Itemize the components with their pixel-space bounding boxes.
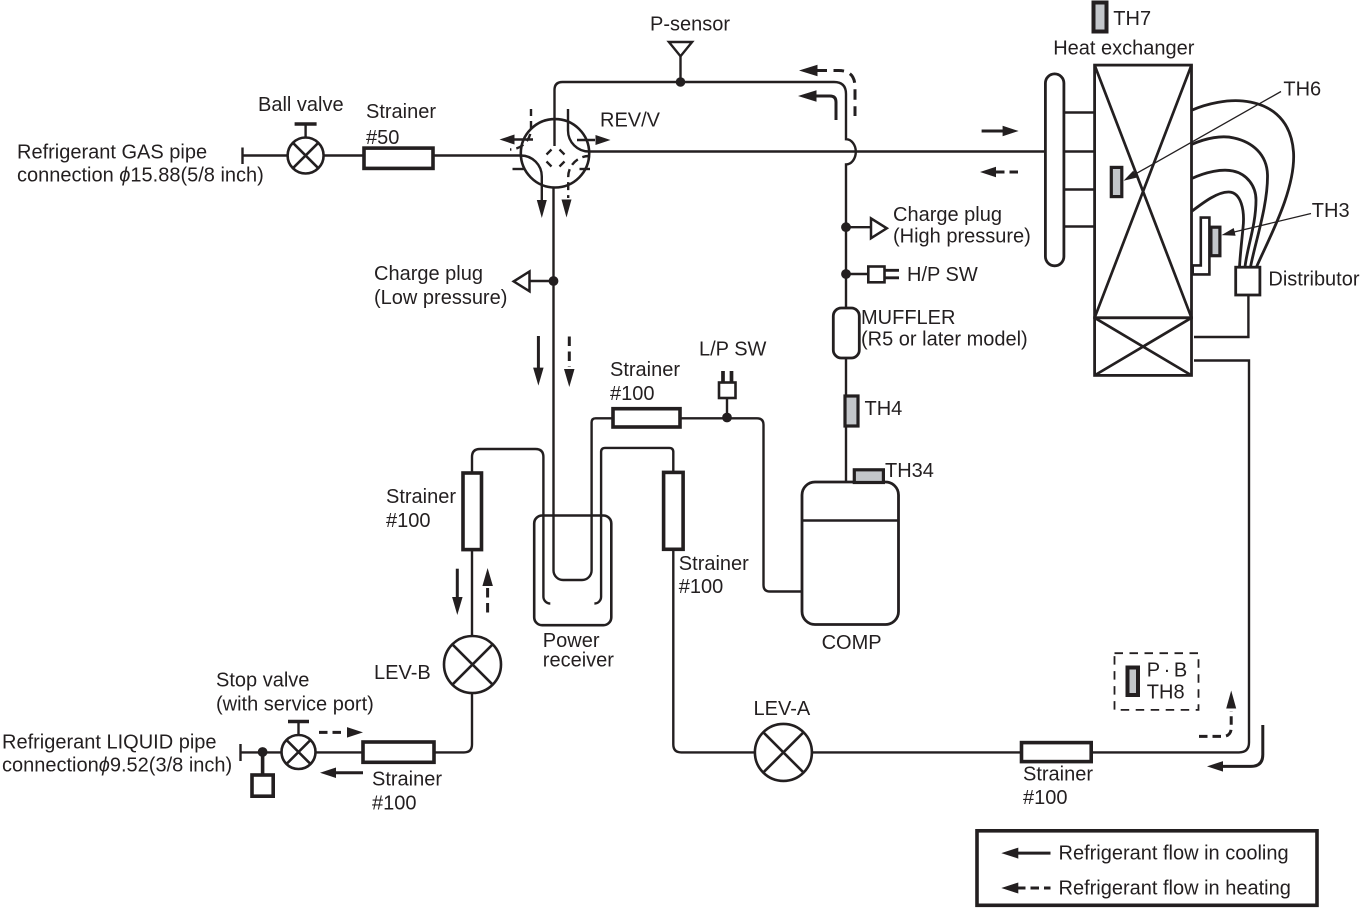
svg-text:TH8: TH8 bbox=[1147, 682, 1185, 704]
muffler bbox=[833, 308, 859, 358]
heat exchanger header stubs bbox=[1064, 113, 1096, 227]
svg-text:Strainer: Strainer bbox=[366, 101, 436, 123]
thermistor TH3 bbox=[1211, 227, 1220, 256]
svg-text:Refrigerant GAS pipe: Refrigerant GAS pipe bbox=[17, 142, 207, 164]
svg-text:TH4: TH4 bbox=[865, 398, 903, 420]
wire: GAS pipe end tick bbox=[241, 148, 243, 165]
strainer #100 horizontal (suction) bbox=[613, 409, 680, 427]
wire: right strainer - LEV-A - bottom strainer - riser to heat exchanger outlet bbox=[673, 361, 1249, 753]
REV/V bottom-right port tick bbox=[580, 168, 591, 170]
svg-text:Ball valve: Ball valve bbox=[258, 94, 344, 116]
cooling flow elbow arrow at discharge loop bbox=[816, 96, 836, 120]
wire: LIQUID pipe - stop valve - strainer - LEV-B - strainer - receiver left dip tube bbox=[241, 449, 551, 752]
svg-text:#100: #100 bbox=[372, 793, 417, 815]
svg-text:#50: #50 bbox=[366, 127, 399, 149]
REV/V solid port top-right elbow bbox=[568, 109, 589, 152]
svg-text:Refrigerant flow in cooling: Refrigerant flow in cooling bbox=[1059, 843, 1289, 865]
pressure switch H/P SW bbox=[846, 273, 868, 275]
svg-text:#100: #100 bbox=[386, 510, 431, 532]
P.B TH8 dashed enclosure bbox=[1115, 653, 1199, 710]
distributor bbox=[1236, 267, 1260, 295]
REV/V left flow arrow bbox=[514, 138, 533, 140]
distribution hairpin pipe 4 (inner) bbox=[1192, 192, 1244, 267]
wire: receiver right dip tube to right strainer #100 bbox=[594, 448, 673, 604]
REV/V solid elbow left-to-bottom with cooling arrow bbox=[521, 156, 542, 202]
svg-text:LEV-B: LEV-B bbox=[374, 662, 431, 684]
distribution hairpin pipe 3 bbox=[1192, 170, 1257, 267]
strainer #50 bbox=[364, 148, 433, 168]
strainer #100 vertical left bbox=[463, 473, 482, 550]
cooling flow arrow above LEV-B bbox=[456, 569, 459, 598]
ball valve bbox=[288, 138, 324, 174]
svg-text:Refrigerant LIQUID pipe: Refrigerant LIQUID pipe bbox=[2, 732, 217, 754]
REV/V dashed elbow right-to-bottom with heating arrow bbox=[568, 156, 589, 198]
svg-text:Charge plug: Charge plug bbox=[374, 263, 483, 285]
heat exchanger header pipe bbox=[1045, 74, 1064, 266]
charge plug (high pressure) symbol bbox=[846, 226, 871, 228]
expansion valve LEV-B bbox=[444, 636, 501, 693]
thermistor TH34 bbox=[854, 470, 883, 483]
cooling flow arrow on suction drop bbox=[537, 336, 540, 368]
svg-text:Strainer: Strainer bbox=[386, 486, 456, 508]
TH3 sensor pocket bbox=[1193, 218, 1210, 275]
cooling flow elbow arrow at riser corner bbox=[1223, 725, 1263, 766]
svg-text:(Low pressure): (Low pressure) bbox=[374, 287, 507, 309]
wire: LIQUID pipe end tick bbox=[239, 744, 241, 761]
svg-text:P·B: P·B bbox=[1147, 660, 1187, 682]
wire: discharge loop REV/V top - P-sensor - hop - muffler - COMP top bbox=[555, 82, 856, 484]
svg-text:L/P SW: L/P SW bbox=[699, 339, 767, 361]
REV/V bottom-left port tick bbox=[513, 168, 524, 170]
svg-text:REV/V: REV/V bbox=[600, 110, 661, 132]
thermistor TH6 bbox=[1111, 167, 1122, 196]
node: H/P SW junction bbox=[841, 269, 851, 279]
wire: REV/V right port to heat exchanger header bbox=[588, 150, 1045, 152]
thermistor TH4 bbox=[845, 396, 858, 426]
svg-text:#100: #100 bbox=[679, 576, 724, 598]
REV/V dashed port top-left elbow bbox=[510, 109, 531, 150]
REV/V center dashed diamond bbox=[547, 150, 565, 167]
svg-text:Strainer: Strainer bbox=[1023, 764, 1093, 786]
node: charge plug high junction bbox=[841, 222, 851, 232]
TH6 leader line with arrow bbox=[1131, 92, 1281, 177]
svg-text:Heat exchanger: Heat exchanger bbox=[1053, 38, 1195, 60]
service port bbox=[261, 752, 265, 775]
stop valve bbox=[282, 735, 316, 769]
svg-text:(R5 or later model): (R5 or later model) bbox=[861, 329, 1028, 351]
svg-text:connectionϕ9.52(3/8 inch): connectionϕ9.52(3/8 inch) bbox=[2, 755, 232, 777]
node: charge plug low junction bbox=[549, 276, 559, 286]
distribution hairpin pipe 1 (outer) bbox=[1192, 101, 1294, 267]
compressor COMP bbox=[802, 482, 899, 625]
expansion valve LEV-A bbox=[755, 724, 812, 781]
svg-text:receiver: receiver bbox=[543, 650, 614, 672]
svg-text:TH7: TH7 bbox=[1113, 8, 1151, 30]
thermistor TH8 bbox=[1128, 668, 1139, 696]
node: L/P SW junction bbox=[722, 413, 732, 423]
REV/V right flow arrow bbox=[577, 139, 595, 141]
svg-text:(High pressure): (High pressure) bbox=[893, 226, 1031, 248]
legend cooling arrow bbox=[1017, 852, 1051, 855]
svg-text:P-sensor: P-sensor bbox=[650, 14, 730, 36]
thermistor TH7 bbox=[1094, 3, 1107, 32]
four-way valve REV/V body bbox=[521, 119, 589, 187]
wire: distributor drain to heat exchanger lower section bbox=[1194, 295, 1248, 337]
strainer #100 (outdoor coil line) bbox=[1022, 743, 1092, 762]
svg-text:Charge plug: Charge plug bbox=[893, 204, 1002, 226]
svg-text:TH6: TH6 bbox=[1283, 79, 1321, 101]
power receiver vessel bbox=[534, 516, 611, 626]
heating flow dashed arrow out of heat exchanger bbox=[996, 171, 1021, 174]
wire: refrigerant GAS pipe to REV/V left port bbox=[243, 154, 522, 156]
svg-text:TH34: TH34 bbox=[885, 460, 934, 482]
svg-text:Distributor: Distributor bbox=[1268, 269, 1359, 291]
svg-text:Strainer: Strainer bbox=[679, 553, 749, 575]
legend heating dashed arrow bbox=[1017, 887, 1051, 890]
heat exchanger main coil bbox=[1095, 65, 1192, 318]
legend box bbox=[977, 831, 1317, 906]
node: service port junction bbox=[258, 747, 268, 757]
charge plug (low pressure) symbol bbox=[530, 280, 554, 282]
svg-text:MUFFLER: MUFFLER bbox=[861, 307, 955, 329]
svg-text:Refrigerant flow in heating: Refrigerant flow in heating bbox=[1059, 878, 1291, 900]
svg-text:#100: #100 bbox=[610, 383, 655, 405]
P-sensor funnel symbol bbox=[669, 42, 692, 56]
TH3 leader line with arrow bbox=[1231, 214, 1311, 233]
svg-text:TH3: TH3 bbox=[1312, 200, 1350, 222]
svg-text:COMP: COMP bbox=[822, 632, 882, 654]
heating flow dashed arrow right of stop valve bbox=[319, 731, 345, 734]
svg-text:#100: #100 bbox=[1023, 787, 1068, 809]
svg-text:connection ϕ15.88(5/8 inch): connection ϕ15.88(5/8 inch) bbox=[17, 165, 264, 187]
cooling flow arrow into heat exchanger bbox=[982, 130, 1003, 133]
svg-text:Strainer: Strainer bbox=[610, 359, 680, 381]
svg-text:(with service port): (with service port) bbox=[216, 694, 374, 716]
strainer #100 vertical right bbox=[664, 472, 684, 549]
svg-text:LEV-A: LEV-A bbox=[754, 698, 811, 720]
cooling flow arrow below strainer bbox=[336, 771, 363, 774]
node: P-sensor junction bbox=[676, 77, 686, 87]
svg-text:Stop valve: Stop valve bbox=[216, 670, 309, 692]
pressure switch L/P SW bbox=[723, 371, 732, 382]
strainer #100 (liquid line) bbox=[363, 742, 434, 762]
wire: suction REV/V bottom - receiver U-tube - strainer #100 - L/P SW - COMP inlet bbox=[554, 160, 807, 592]
heating flow dashed elbow arrow at riser corner bbox=[1199, 711, 1231, 736]
heat exchanger lower coil bbox=[1095, 318, 1192, 376]
heating flow dashed elbow arrow at discharge loop bbox=[817, 71, 856, 117]
heating flow dashed arrow on suction drop bbox=[568, 337, 571, 368]
svg-text:H/P SW: H/P SW bbox=[907, 264, 978, 286]
distribution hairpin pipe 2 bbox=[1192, 137, 1268, 267]
REV/V top pipe stub bbox=[553, 120, 555, 146]
svg-text:Strainer: Strainer bbox=[372, 769, 442, 791]
heating flow dashed arrow above LEV-B bbox=[486, 588, 489, 614]
